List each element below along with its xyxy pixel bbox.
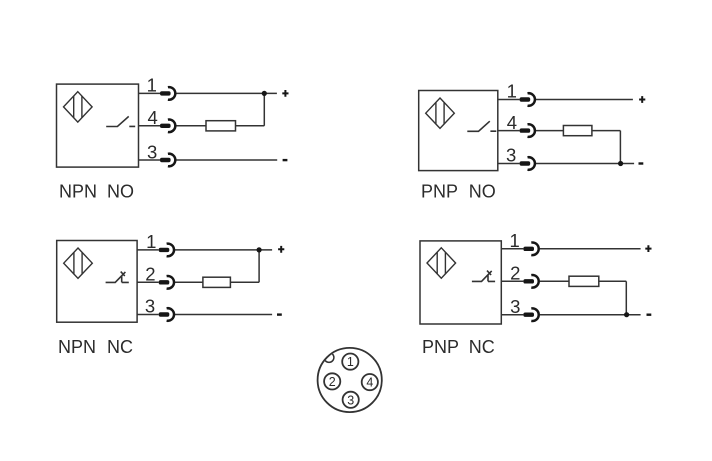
svg-text:1: 1 [347,355,354,369]
svg-text:1: 1 [507,81,517,102]
connector pin2 plug pill [159,280,170,284]
svg-text:NC: NC [107,337,133,357]
wire corner vertical to pin3 [625,281,627,314]
junction node dot [262,91,267,96]
switch contact NO [467,121,496,131]
diamond inner chord right [444,252,446,274]
connector pin2 plug arc [167,276,174,289]
pin 2 circle [324,373,340,389]
minus terminal [639,162,644,164]
switch contact NC [472,271,495,282]
svg-text:2: 2 [510,263,520,284]
wire junction vertical [258,250,260,282]
svg-text:3: 3 [510,296,520,317]
wire pin4 to resistor [536,130,564,132]
junction node dot [624,312,629,317]
wire resistor to corner [592,130,621,132]
wire pin3 to minus terminal [536,163,634,165]
resistor load (NPN NO) [206,121,236,131]
diamond inner chord left [435,102,437,124]
wire pin2 to resistor [540,280,569,282]
resistor load (PNP NO) [563,126,592,136]
svg-text:2: 2 [145,264,155,285]
sensor pictogram diamond [426,98,455,128]
svg-text:4: 4 [147,107,157,128]
wire pin1 to plus terminal [176,92,277,94]
minus terminal [283,159,288,161]
connector pin4 plug pill [160,124,171,128]
wire pin1 stub [137,249,159,251]
svg-text:NO: NO [107,182,134,202]
svg-text:1: 1 [146,231,156,252]
svg-text:NPN: NPN [59,182,97,202]
connector pin3 plug pill [159,312,170,316]
wire pin3 to minus terminal [176,159,277,161]
resistor load (PNP NC) [569,276,599,286]
connector pin1 plug pill [520,97,531,101]
wire pin2 to resistor [175,281,203,283]
pin 1 circle [342,354,358,370]
wire pin3 to minus terminal [540,314,641,316]
wire resistor to junction [230,281,259,283]
svg-text:4: 4 [507,112,517,133]
sensor body box (NPN NC) [57,241,137,323]
wire pin1 stub [501,248,523,250]
minus terminal [647,314,652,316]
svg-text:1: 1 [510,230,520,251]
diamond inner chord right [443,102,445,124]
svg-text:1: 1 [147,74,157,95]
wire pin1 to plus terminal [540,248,641,250]
sensor body box (PNP NO) [419,91,498,171]
diamond inner chord left [73,96,75,118]
minus terminal [277,313,282,315]
connector pin4 plug arc [168,120,175,133]
wire corner vertical to pin3 [619,131,621,164]
wire pin4 to resistor [176,125,206,127]
diamond inner chord left [436,252,438,274]
svg-text:NC: NC [469,337,495,357]
connector pin4 plug arc [528,124,535,137]
wire pin1 stub [139,92,161,94]
wire pin3 stub [139,159,161,161]
resistor load (NPN NC) [203,277,231,287]
wire pin4 stub [139,125,161,127]
plus terminal [639,96,645,103]
keyway notch circle [324,353,334,363]
connector pin3 plug pill [520,161,531,165]
connector pin1 plug arc [531,243,538,256]
wire resistor to corner [599,280,627,282]
connector pin2 plug arc [531,275,538,288]
svg-text:3: 3 [347,393,354,407]
svg-text:3: 3 [145,296,155,317]
connector pin1 plug arc [168,87,175,100]
sensor body box (NPN NO) [57,84,139,167]
svg-text:PNP: PNP [422,337,459,357]
wire pin1 to plus terminal [175,249,272,251]
junction node dot [257,247,262,252]
svg-text:4: 4 [366,376,373,390]
wire pin2 stub [501,280,523,282]
connector pin3 plug pill [160,158,171,162]
sensor body box (PNP NC) [420,241,501,324]
wire pin3 stub [137,314,159,316]
connector pin3 plug arc [528,157,535,170]
diamond inner chord right [81,252,83,274]
svg-text:2: 2 [329,375,336,389]
pin 3 circle [343,392,359,408]
junction node dot [618,161,623,166]
connector pin1 plug pill [160,91,171,95]
connector pin3 plug pill [523,313,534,317]
switch contact NC [106,272,129,283]
wire pin4 stub [498,130,520,132]
sensor pictogram diamond [64,92,93,122]
wire pin1 to plus terminal [536,99,633,101]
diamond inner chord left [73,252,75,274]
wire pin3 to minus terminal [175,314,272,316]
wire pin3 stub [501,314,523,316]
pin 4 circle [362,374,378,390]
connector pin3 plug arc [167,308,174,321]
sensor pictogram diamond [427,248,456,278]
connector pin1 plug pill [159,248,170,252]
plus terminal [278,246,284,253]
wire pin3 stub [498,163,520,165]
wire pin1 stub [498,99,520,101]
connector pin1 plug arc [167,244,174,257]
connector pin3 plug arc [168,154,175,167]
plus terminal [645,245,651,252]
svg-text:NPN: NPN [58,337,96,357]
sensor pictogram diamond [64,248,93,278]
plus terminal [282,90,288,97]
connector pin1 plug pill [523,247,534,251]
svg-text:NO: NO [469,182,496,202]
svg-text:3: 3 [147,141,157,162]
diamond inner chord right [81,96,83,118]
svg-text:3: 3 [506,145,516,166]
svg-text:PNP: PNP [421,182,458,202]
switch contact NO [106,116,135,126]
connector pin2 plug pill [523,279,534,283]
connector pin4 plug pill [520,128,531,132]
connector pin3 plug arc [531,308,538,321]
wire pin2 stub [137,281,159,283]
wire resistor to junction [236,125,265,127]
wire junction vertical [263,93,265,125]
connector pin1 plug arc [528,93,535,106]
connector face outer circle [318,348,382,412]
